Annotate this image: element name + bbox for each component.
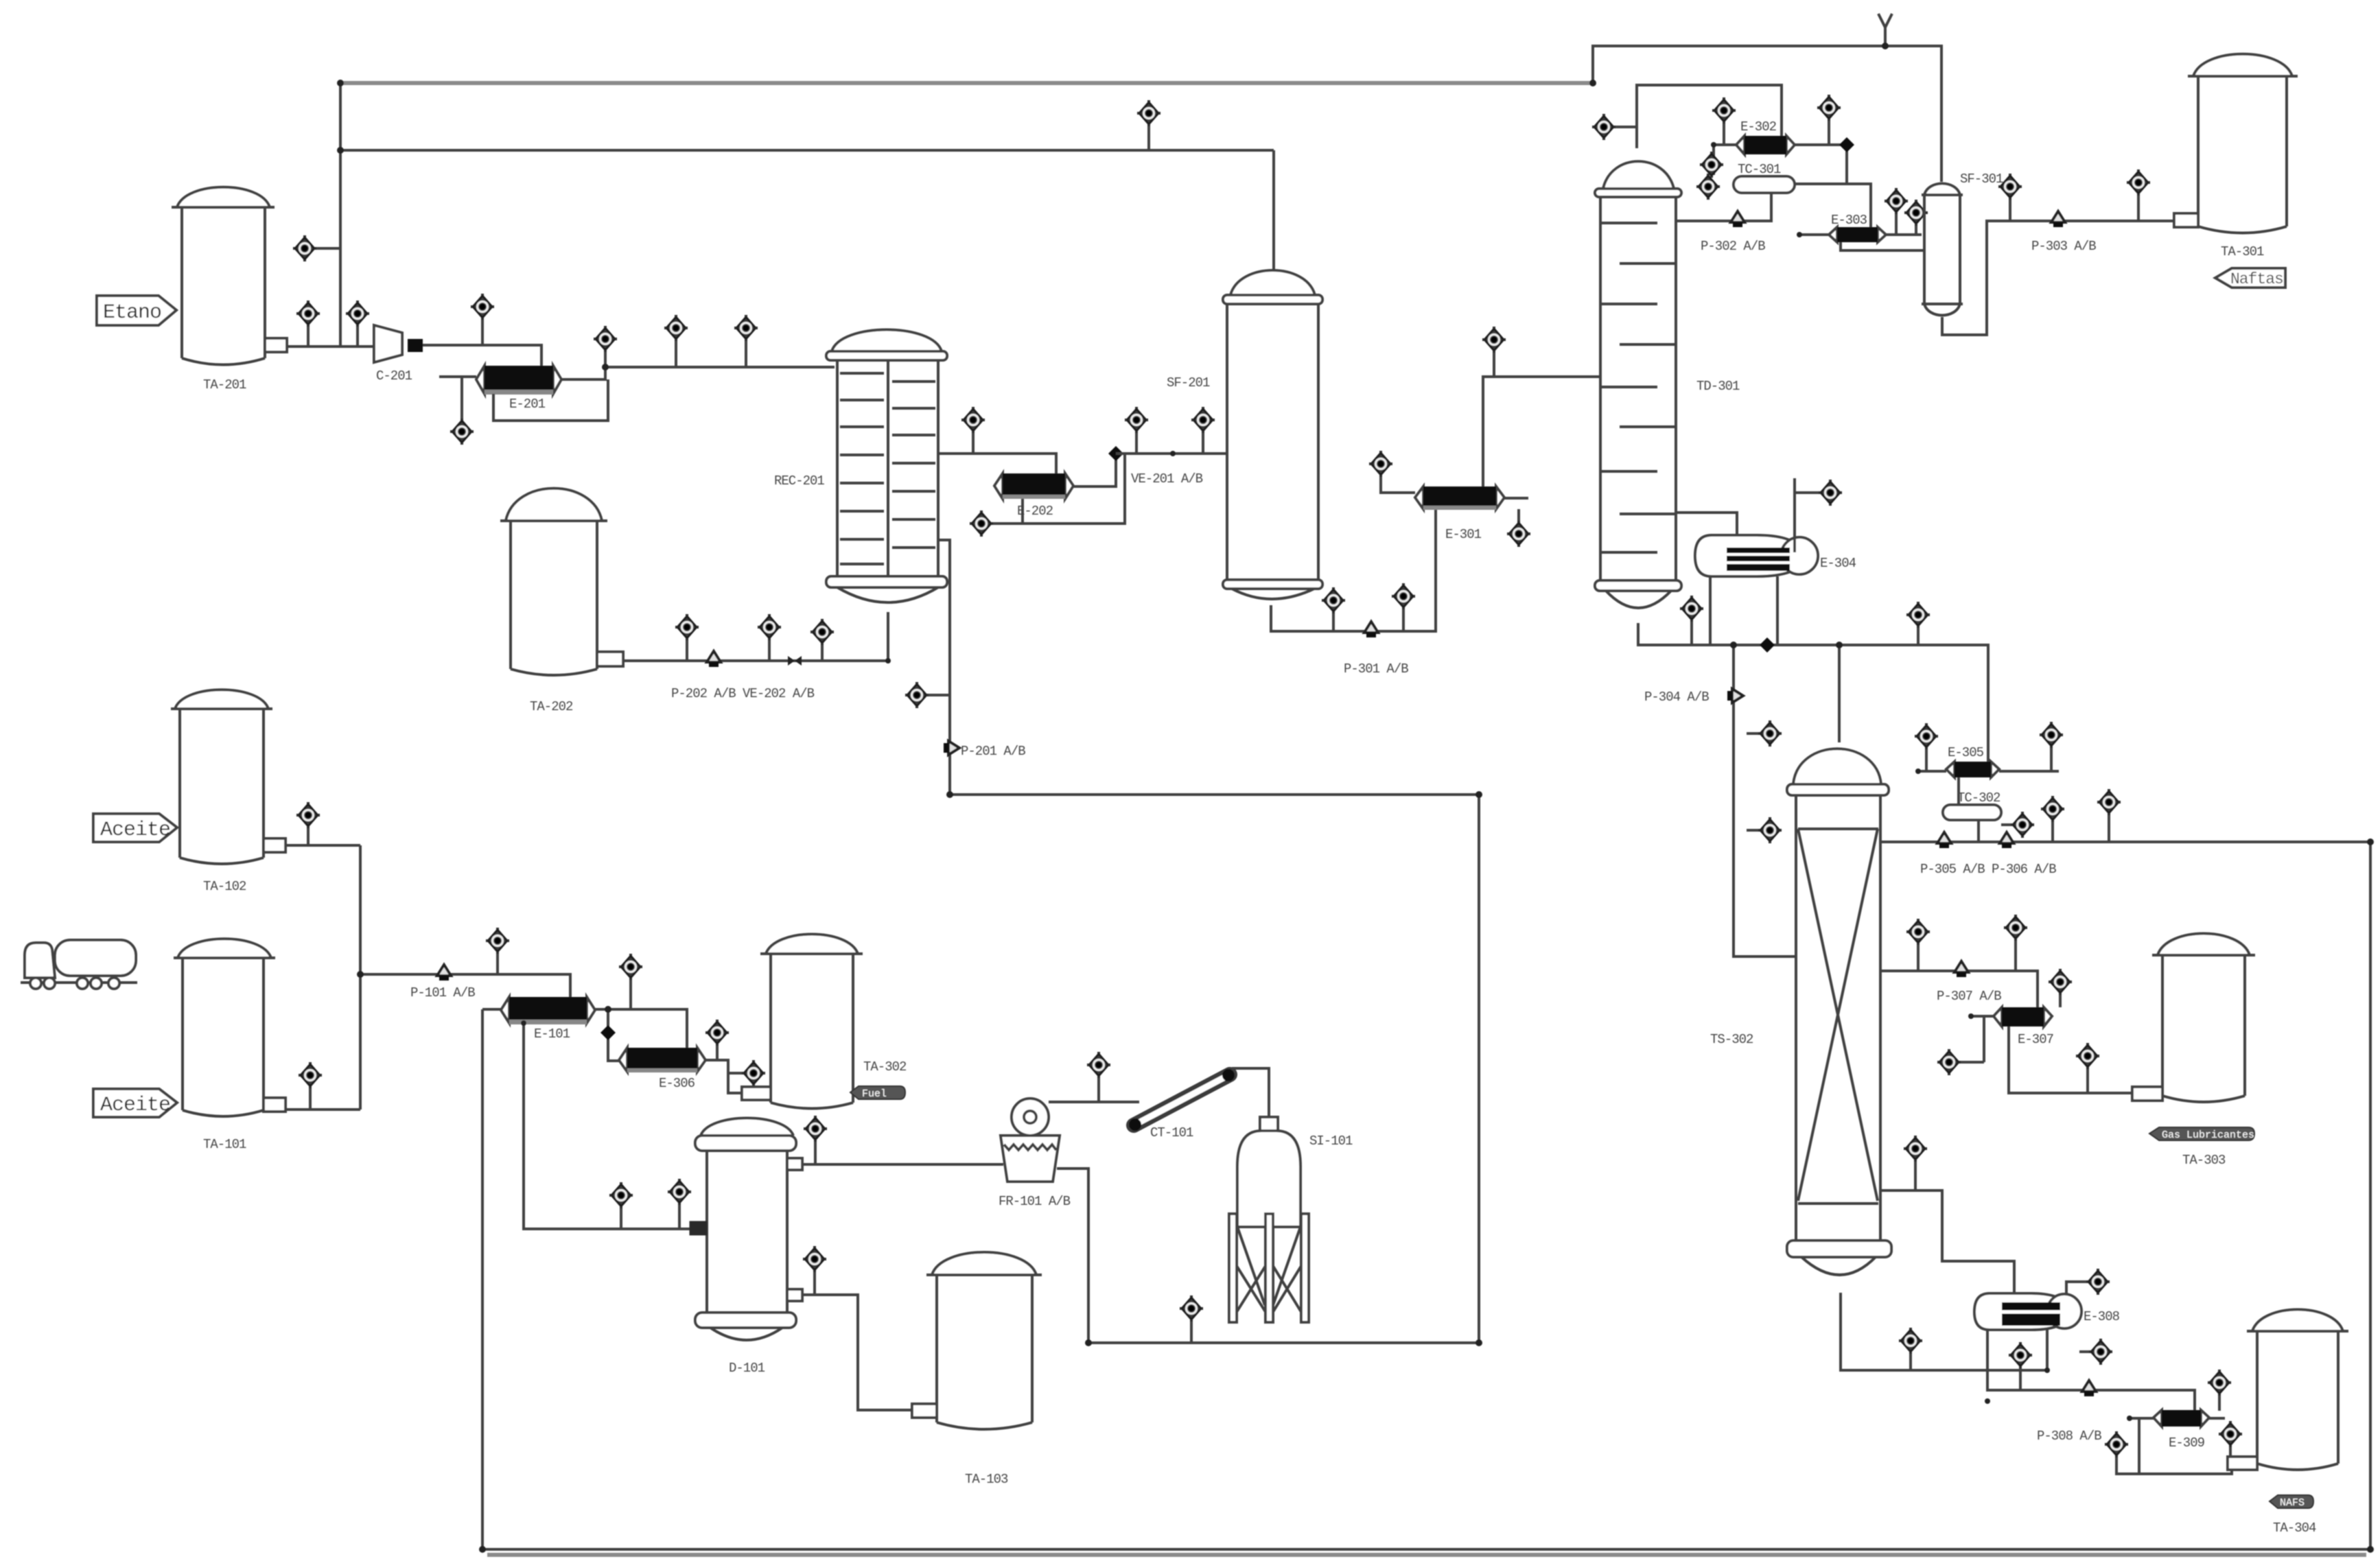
wire E-301 utility stub xyxy=(1381,476,1415,493)
column SF-201 xyxy=(1167,270,1322,599)
svg-text:P-307 A/B: P-307 A/B xyxy=(1937,989,2001,1004)
pump P-101 A/B xyxy=(437,965,451,981)
wire E-304 downleg left xyxy=(1709,576,1712,645)
svg-text:P-304 A/B: P-304 A/B xyxy=(1644,690,1709,705)
wire E-201 utility stub xyxy=(439,377,476,420)
wire E-201 outlet to REC-201 xyxy=(561,367,835,379)
valve on overhead header xyxy=(1147,125,1150,150)
valve on D-101 feed xyxy=(620,1207,622,1229)
valve on E-306 outlet xyxy=(716,1044,719,1060)
svg-text:TA-302: TA-302 xyxy=(863,1059,907,1075)
valve on product header b xyxy=(2108,814,2110,842)
pump P-305 xyxy=(1937,832,1951,848)
wire SF-201 overhead downcomer xyxy=(1272,150,1275,271)
wire E-201 bottom pass loop xyxy=(493,379,608,421)
valve on FR-101 feed xyxy=(814,1140,817,1164)
heat exchanger E-307 xyxy=(1994,1007,2053,1047)
svg-text:Etano: Etano xyxy=(103,301,161,325)
heat exchanger E-306 xyxy=(619,1048,705,1091)
wire E-304 feed from column xyxy=(1676,513,1737,535)
valve on REC feed near column xyxy=(745,340,747,367)
truck icon xyxy=(21,940,137,989)
valve on REC feed line xyxy=(675,340,677,367)
kettle reboiler E-308 xyxy=(1974,1293,2120,1330)
pump P-308 A/B xyxy=(2082,1381,2096,1396)
heat exchanger E-301 xyxy=(1415,486,1504,542)
tag dark fuel (TA-302) xyxy=(850,1086,905,1100)
valve above E-302 inlet xyxy=(1723,122,1725,145)
valve on P-308 suction xyxy=(2019,1367,2022,1390)
pump P-303 A/B xyxy=(2051,211,2065,227)
svg-text:Fuel: Fuel xyxy=(862,1088,887,1100)
pump P-302 A/B xyxy=(1731,211,1745,227)
svg-text:TA-102: TA-102 xyxy=(203,879,246,894)
wire E-305 outlet stub xyxy=(1999,770,2059,773)
svg-text:SI-101: SI-101 xyxy=(1309,1134,1353,1149)
svg-text:VE-201 A/B: VE-201 A/B xyxy=(1131,471,1203,486)
drum TC-301 xyxy=(1734,162,1795,193)
valve near E-309 inlet corner xyxy=(2218,1394,2221,1411)
svg-text:TS-302: TS-302 xyxy=(1710,1032,1753,1047)
svg-text:P-202 A/B VE-202 A/B: P-202 A/B VE-202 A/B xyxy=(671,686,815,701)
wire E-304 downleg right xyxy=(1776,576,1779,645)
svg-text:P-301 A/B: P-301 A/B xyxy=(1344,661,1408,677)
wire E-301 outlet to TD-301 xyxy=(1483,377,1600,486)
svg-text:E-305: E-305 xyxy=(1948,745,1984,760)
valve on TA-102 outlet xyxy=(307,827,310,845)
valve on TA-101 outlet xyxy=(309,1087,312,1110)
valve on TA-303 feed xyxy=(2086,1068,2089,1093)
svg-text:Aceite: Aceite xyxy=(100,1094,170,1117)
wire E-301 right stub xyxy=(1504,498,1528,522)
valve on E-305 inlet xyxy=(1925,748,1928,771)
valve near REC bottom xyxy=(821,644,824,661)
wire SF-201 bottoms to P-301 xyxy=(1271,509,1436,631)
reactor REC-201 xyxy=(774,330,947,603)
valve on E-308 vent xyxy=(2086,1269,2110,1295)
wire compressor suction riser xyxy=(339,83,342,347)
valve on TD bottoms xyxy=(1690,620,1693,645)
svg-text:E-302: E-302 xyxy=(1740,119,1777,134)
wire E-306 outlet to TA-302 xyxy=(705,1060,742,1093)
wire E-305 to TC-302 xyxy=(1957,777,1960,805)
heat exchanger E-305 xyxy=(1946,745,1999,777)
valve on E-305 branch xyxy=(1917,626,1920,645)
valve on side draw a xyxy=(1917,943,1920,971)
svg-text:NAFS: NAFS xyxy=(2280,1497,2305,1509)
svg-text:TA-304: TA-304 xyxy=(2273,1521,2316,1536)
svg-text:CT-101: CT-101 xyxy=(1150,1125,1193,1140)
black valve on bottoms header xyxy=(1760,637,1775,653)
wire P-101 suction/discharge xyxy=(360,974,570,997)
wire vent header xyxy=(1593,46,1941,182)
pump P-306 xyxy=(2000,832,2014,848)
filter FR-101 A/B xyxy=(999,1099,1071,1209)
wire TC-302 right stub xyxy=(2001,823,2012,826)
svg-text:FR-101 A/B: FR-101 A/B xyxy=(999,1194,1071,1209)
svg-text:TC-302: TC-302 xyxy=(1957,790,2000,806)
pump P-304 A/B xyxy=(1727,689,1743,703)
wire TD bottoms header xyxy=(1638,623,1988,762)
svg-text:D-101: D-101 xyxy=(729,1361,765,1376)
heat exchanger E-309 xyxy=(2154,1410,2209,1451)
svg-text:REC-201: REC-201 xyxy=(774,473,824,489)
tank TA-302 xyxy=(742,935,907,1109)
valve on E-304 vent xyxy=(1819,480,1842,506)
kettle reboiler E-304 xyxy=(1695,535,1856,576)
wire E-308 vent xyxy=(2066,1282,2086,1294)
tag Etano xyxy=(97,296,176,325)
svg-text:Gas Lubricantes: Gas Lubricantes xyxy=(2162,1129,2254,1141)
wire E-308 to P-308 xyxy=(1987,1330,2195,1411)
valve on D-101 feed near vessel xyxy=(678,1204,681,1229)
wire FR-101 outlet drain xyxy=(1057,795,1479,1343)
valve on E-302 stub b xyxy=(1696,174,1720,200)
heat exchanger E-202 xyxy=(994,473,1073,519)
wire P-307 side draw xyxy=(1880,971,2038,1007)
column TD-301 xyxy=(1595,161,1740,608)
tag dark NAFS xyxy=(2270,1495,2313,1509)
svg-text:TC-301: TC-301 xyxy=(1738,162,1781,177)
valve on TD-301 overhead xyxy=(1615,126,1637,128)
tank TA-304 xyxy=(2228,1310,2348,1536)
wire tank junction riser xyxy=(359,845,362,1110)
wire E-202 bypass loop xyxy=(993,454,1125,524)
heat exchanger E-201 xyxy=(476,366,561,412)
tank TA-102 xyxy=(171,690,285,894)
wire E-307 left stub loop xyxy=(1959,1016,1994,1062)
valve on bypass xyxy=(970,510,993,537)
expansion valve VE-201 on line xyxy=(1108,446,1123,461)
valve near TA-302 nozzle xyxy=(728,1072,745,1075)
wire REC side draw to E-202 xyxy=(938,454,1056,473)
svg-text:TA-202: TA-202 xyxy=(530,699,573,714)
vessel D-101 xyxy=(690,1118,802,1376)
tank TA-101 xyxy=(174,939,285,1152)
valve on side draw b xyxy=(2014,939,2017,971)
valve over E-303 outlet b xyxy=(1915,224,1917,235)
svg-text:P-308 A/B: P-308 A/B xyxy=(2037,1429,2101,1444)
tank TA-202 xyxy=(500,489,623,714)
pump P-301 A/B xyxy=(1364,622,1378,637)
valves on SF bottoms xyxy=(1332,612,1335,631)
silo SI-101 xyxy=(1229,1117,1353,1322)
wire E-101 bottom to D-101 feed xyxy=(524,1023,690,1229)
wire D-101 top outlet to FR-101 xyxy=(802,1163,1003,1166)
wire E-302 outlet to TC-301/E-303 xyxy=(1795,145,1871,227)
wire E-304 vent riser xyxy=(1795,478,1819,552)
wire TC-301 to P-302 reflux xyxy=(1676,193,1771,221)
tank TA-301 xyxy=(2174,54,2298,259)
valve on TS bottoms xyxy=(1909,1352,1912,1370)
valve above E-201 outlet xyxy=(604,351,607,367)
svg-text:SF-201: SF-201 xyxy=(1167,375,1210,390)
wire TD-301 overhead xyxy=(1637,85,1782,148)
valve on drain run xyxy=(1190,1320,1193,1343)
wire C-201 discharge xyxy=(423,345,541,366)
wire REC bottoms to P-201 xyxy=(938,540,1479,795)
wire recycle gas header top xyxy=(340,81,1593,85)
compressor C-201 xyxy=(374,325,423,384)
svg-text:E-304: E-304 xyxy=(1820,556,1856,571)
svg-text:SF-301: SF-301 xyxy=(1960,172,2003,187)
svg-text:E-303: E-303 xyxy=(1831,213,1867,228)
tank TA-201 xyxy=(172,187,287,392)
valve on P-303 line b xyxy=(2137,194,2140,221)
expansion valve VE-202 marks xyxy=(788,656,802,666)
wire E-303 outlet stub xyxy=(1886,233,1922,236)
svg-text:Naftas: Naftas xyxy=(2230,270,2283,288)
wire TA-102 outlet xyxy=(285,844,360,847)
wire TC-302 bottoms xyxy=(1977,820,1980,842)
pump P-202 xyxy=(707,651,721,667)
wire E-305 inlet stub xyxy=(1918,770,1946,773)
svg-text:E-307: E-307 xyxy=(2018,1032,2053,1047)
wire D-101 lower outlet to TA-103 xyxy=(802,1295,912,1410)
valve on discharge xyxy=(481,318,484,345)
heat exchanger E-303 xyxy=(1829,213,1886,242)
wire E-101 outlet to E-306 xyxy=(595,1009,687,1048)
svg-text:E-308: E-308 xyxy=(2084,1309,2120,1324)
svg-text:E-101: E-101 xyxy=(534,1026,570,1042)
svg-text:P-303 A/B: P-303 A/B xyxy=(2031,239,2096,254)
svg-text:TD-301: TD-301 xyxy=(1696,379,1740,394)
svg-text:P-302 A/B: P-302 A/B xyxy=(1701,239,1765,254)
svg-text:C-201: C-201 xyxy=(376,368,412,384)
svg-text:TA-101: TA-101 xyxy=(203,1137,246,1152)
wire E-101 left outlet to recycle riser xyxy=(482,1008,501,1011)
separator SF-301 xyxy=(1922,172,2003,316)
wire E-101 to E-306 left pass xyxy=(608,1009,619,1061)
svg-text:TA-301: TA-301 xyxy=(2221,244,2264,259)
wire TA-101 outlet xyxy=(285,1108,360,1111)
valve on D-101 lower outlet xyxy=(813,1271,816,1295)
wire TS-302 bottoms to E-308 xyxy=(1841,1293,2047,1370)
valve under E-301 right xyxy=(1507,521,1530,547)
valve black on E-306 left leg xyxy=(600,1025,616,1040)
wire E-303 underpass to SF-301 xyxy=(1841,242,1924,250)
valve on refrigerant line a xyxy=(686,639,688,661)
svg-text:P-101 A/B: P-101 A/B xyxy=(410,985,475,1000)
valve on utility stub xyxy=(450,419,474,445)
valve on side draw xyxy=(972,432,975,454)
wire conveyor to silo xyxy=(1232,1068,1269,1117)
svg-text:P-201 A/B: P-201 A/B xyxy=(961,744,1025,759)
wire TA-202 to REC-201 bottom xyxy=(623,612,888,661)
valve on recycle riser xyxy=(316,247,340,250)
valve on P-101 discharge xyxy=(496,952,499,974)
wire P-304 drop line xyxy=(1734,645,1796,956)
valve on P-303 line a xyxy=(2009,198,2011,221)
valve over E-303 outlet a xyxy=(1895,213,1898,235)
vent Y stack xyxy=(1878,14,1892,46)
tank TA-103 xyxy=(912,1252,1042,1487)
valve on upper draw xyxy=(1914,1160,1917,1190)
valve on drop line a xyxy=(1747,732,1758,735)
wire E-202 outlet riser xyxy=(1073,454,1116,486)
heat exchanger E-302 xyxy=(1736,119,1795,154)
tank TA-303 xyxy=(2132,934,2255,1169)
valve on E-301 utility xyxy=(1369,451,1392,477)
black valve on E-302 outlet xyxy=(1839,137,1854,152)
valve above TA-304 nozzle xyxy=(2229,1446,2232,1459)
valve on SF feed xyxy=(1135,432,1138,454)
valve on TA-201 outlet xyxy=(307,325,310,347)
valve on product header a xyxy=(2051,821,2054,842)
valve over E-307 xyxy=(2059,994,2062,1007)
valve on refrigerant line b xyxy=(768,639,771,661)
tag Naftas xyxy=(2215,268,2285,288)
valve on blower line xyxy=(1097,1077,1100,1102)
drum TC-302 xyxy=(1943,790,2001,820)
pump P-307 A/B xyxy=(1955,961,1968,977)
conveyor CT-101 xyxy=(1129,1069,1235,1140)
valve on E-302 stub a xyxy=(1700,152,1723,178)
valve on suction junction xyxy=(356,325,359,347)
valve on drain loop xyxy=(2116,1456,2139,1474)
wire E-303 inlet stub xyxy=(1799,233,1829,236)
svg-text:E-201: E-201 xyxy=(509,397,546,412)
svg-text:E-301: E-301 xyxy=(1445,527,1482,542)
heat exchanger E-101 xyxy=(501,997,595,1042)
wire blower to conveyor xyxy=(1049,1101,1139,1103)
valve on TD feed xyxy=(1493,351,1495,377)
valve above E-101 outlet xyxy=(629,978,632,1009)
svg-text:TA-103: TA-103 xyxy=(965,1472,1008,1487)
tag Aceite (upper) xyxy=(93,814,177,842)
wire to SF-201 feed xyxy=(1116,452,1227,455)
wire E-309 right stub xyxy=(2209,1417,2225,1420)
wire bottom recycle loop (left riser, bottom run, right riser) xyxy=(482,842,2370,1549)
svg-text:TA-201: TA-201 xyxy=(203,377,246,392)
wire E-309 outlet drop to TA-304 xyxy=(2130,1417,2154,1420)
tag dark gas lubricantes xyxy=(2149,1127,2254,1141)
valve on E-307 loop xyxy=(1937,1049,1961,1075)
wire TS-302 feed drop xyxy=(1838,645,1841,742)
wire E-302 inlet stub xyxy=(1714,145,1736,175)
wire TA-201 outlet to compressor xyxy=(287,345,374,348)
svg-text:E-306: E-306 xyxy=(659,1076,695,1091)
valve above E-302 outlet xyxy=(1828,119,1830,145)
column TS-302 xyxy=(1710,749,1891,1275)
pump P-201 A/B xyxy=(944,741,959,755)
valve on bottoms xyxy=(929,694,950,696)
valve on TC-302 stub xyxy=(2011,812,2034,838)
tag Aceite (lower) xyxy=(93,1089,177,1117)
valve on drop line b xyxy=(1747,829,1758,832)
wire TS-302 upper draw to E-308 xyxy=(1880,1190,2014,1293)
wire SF-301 bottoms to P-303 xyxy=(1942,221,2174,335)
valve on E-305 outlet xyxy=(2050,747,2053,771)
wire SF-201 overhead header xyxy=(340,149,1274,152)
svg-text:P-305 A/B P-306 A/B: P-305 A/B P-306 A/B xyxy=(1920,862,2056,877)
wire E-307 outlet to TA-303 xyxy=(2009,1026,2132,1093)
wire long product header xyxy=(1880,841,2370,843)
svg-text:TA-303: TA-303 xyxy=(2182,1153,2226,1168)
valve right of E-308 xyxy=(2079,1350,2089,1353)
svg-text:Aceite: Aceite xyxy=(100,819,170,842)
svg-text:E-309: E-309 xyxy=(2169,1435,2205,1451)
valve on SF feed 2 xyxy=(1202,432,1204,454)
